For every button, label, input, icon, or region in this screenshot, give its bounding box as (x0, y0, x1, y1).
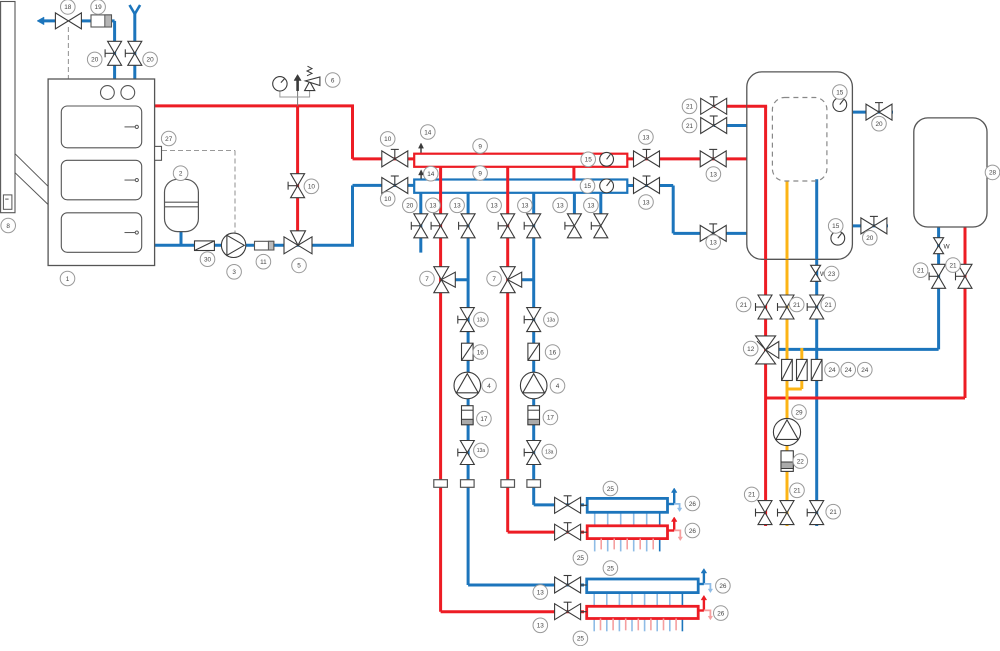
svg-text:13: 13 (710, 171, 718, 178)
svg-text:21: 21 (686, 104, 694, 111)
svg-text:13: 13 (557, 203, 565, 210)
svg-text:19: 19 (95, 4, 103, 11)
svg-text:14: 14 (424, 129, 432, 136)
svg-text:26: 26 (689, 501, 697, 508)
svg-text:15: 15 (585, 157, 593, 164)
svg-text:21: 21 (740, 302, 748, 309)
svg-text:13a: 13a (477, 448, 486, 454)
svg-text:21: 21 (793, 302, 801, 309)
svg-text:20: 20 (866, 235, 874, 242)
svg-text:13: 13 (537, 589, 545, 596)
svg-text:7: 7 (492, 276, 496, 283)
svg-text:13: 13 (429, 203, 437, 210)
svg-text:13: 13 (521, 203, 529, 210)
svg-text:2: 2 (179, 171, 183, 178)
svg-text:25: 25 (577, 636, 585, 643)
svg-text:7: 7 (425, 276, 429, 283)
svg-text:17: 17 (480, 416, 488, 423)
svg-text:20: 20 (147, 57, 155, 64)
svg-text:13: 13 (642, 134, 650, 141)
svg-text:24: 24 (861, 367, 869, 374)
svg-text:25: 25 (607, 486, 615, 493)
svg-text:9: 9 (478, 143, 482, 150)
svg-text:3: 3 (232, 269, 236, 276)
svg-text:23: 23 (828, 271, 836, 278)
svg-text:16: 16 (477, 349, 485, 356)
svg-text:4: 4 (487, 383, 491, 390)
svg-text:6: 6 (331, 77, 335, 84)
svg-text:17: 17 (547, 415, 555, 422)
svg-text:12: 12 (747, 346, 755, 353)
svg-text:13a: 13a (545, 449, 554, 455)
svg-text:13: 13 (710, 239, 718, 246)
svg-text:15: 15 (584, 183, 592, 190)
svg-text:21: 21 (748, 492, 756, 499)
svg-text:20: 20 (406, 203, 414, 210)
svg-text:15: 15 (836, 89, 844, 96)
svg-text:13a: 13a (547, 317, 556, 323)
svg-text:27: 27 (165, 136, 173, 143)
svg-text:26: 26 (689, 528, 697, 535)
svg-text:21: 21 (825, 302, 833, 309)
svg-text:30: 30 (204, 257, 212, 264)
svg-text:13: 13 (537, 623, 545, 630)
svg-text:13: 13 (642, 199, 650, 206)
svg-text:9: 9 (478, 170, 482, 177)
svg-text:14: 14 (427, 171, 435, 178)
svg-text:13a: 13a (477, 317, 486, 323)
svg-text:11: 11 (260, 259, 267, 266)
svg-text:18: 18 (64, 4, 72, 11)
svg-text:20: 20 (91, 57, 99, 64)
svg-text:26: 26 (717, 610, 725, 617)
svg-text:16: 16 (549, 349, 557, 356)
svg-text:8: 8 (6, 223, 10, 230)
svg-text:W: W (944, 244, 951, 251)
svg-text:21: 21 (949, 262, 957, 269)
svg-text:10: 10 (308, 184, 316, 191)
svg-text:25: 25 (577, 555, 585, 562)
svg-text:21: 21 (686, 123, 694, 130)
svg-text:21: 21 (793, 488, 801, 495)
svg-text:26: 26 (719, 583, 727, 590)
svg-text:28: 28 (989, 170, 997, 177)
svg-text:15: 15 (832, 223, 840, 230)
svg-text:5: 5 (297, 263, 301, 270)
svg-text:21: 21 (917, 268, 925, 275)
svg-text:25: 25 (607, 565, 615, 572)
svg-text:4: 4 (556, 383, 560, 390)
svg-text:10: 10 (384, 196, 392, 203)
svg-text:13: 13 (587, 203, 595, 210)
svg-text:21: 21 (830, 509, 838, 516)
svg-text:10: 10 (384, 136, 392, 143)
svg-text:24: 24 (828, 367, 836, 374)
svg-text:1: 1 (66, 276, 70, 283)
svg-text:22: 22 (797, 458, 805, 465)
svg-text:29: 29 (795, 409, 803, 416)
svg-text:13: 13 (491, 203, 499, 210)
svg-text:20: 20 (875, 121, 883, 128)
svg-text:13: 13 (454, 203, 462, 210)
svg-text:24: 24 (845, 367, 853, 374)
